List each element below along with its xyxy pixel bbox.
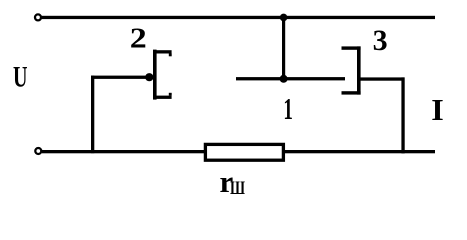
resistor r_sh (shunt) xyxy=(205,144,283,160)
wire (bottom rail) xyxy=(42,150,435,153)
label I (output current) xyxy=(431,92,444,127)
svg-text:2: 2 xyxy=(130,23,147,55)
label r_sh (shunt resistance value) xyxy=(220,164,246,199)
wire (top rail) xyxy=(42,16,436,19)
node (gate contact dot of element 2) xyxy=(145,73,153,81)
node (junction dot on top rail) xyxy=(280,14,288,22)
element 2 (bracket electrode, ticks to the right) xyxy=(153,50,172,100)
label 1 xyxy=(283,91,293,126)
terminal (bottom-left input) xyxy=(35,148,41,154)
terminal (top-left input) xyxy=(35,14,41,20)
label U (input voltage) xyxy=(13,61,28,93)
svg-text:3: 3 xyxy=(373,24,388,57)
svg-text:I: I xyxy=(431,92,444,127)
element 3 (bracket electrode, ticks to the left) xyxy=(342,46,361,94)
wire (gate lead of element 3) xyxy=(236,77,345,80)
wire (drain lead of element 3 to right, then down) xyxy=(361,77,405,153)
svg-text:1: 1 xyxy=(283,91,293,126)
node 1 (junction dot on gate wire) xyxy=(280,75,288,83)
label 2 xyxy=(130,23,147,55)
svg-text:U: U xyxy=(13,61,28,93)
wire (vertical from element 2 gate down to bottom rail) xyxy=(91,76,94,154)
wire (vertical from top rail to node 1) xyxy=(282,17,285,80)
svg-text:Ш: Ш xyxy=(230,178,245,199)
wire (gate lead of element 2) xyxy=(91,76,149,79)
label 3 xyxy=(373,24,388,57)
